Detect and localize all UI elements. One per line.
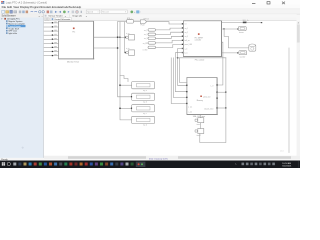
bus line B (120, 22, 132, 120)
wire T1 to P1 (134, 21, 141, 23)
chip U2 PIC control (183, 21, 221, 57)
svg-text:Program: Program (30, 5, 41, 9)
svg-text:sw_PB: sw_PB (143, 43, 148, 45)
wire return loop arrow (176, 57, 178, 59)
svg-text:PIC 16F877: PIC 16F877 (195, 37, 204, 39)
speaker LS1 (249, 45, 256, 52)
chip U1 Monitor Timer (59, 21, 94, 59)
port RC2 sounder (239, 51, 247, 55)
svg-text:File: File (2, 5, 7, 9)
wire right loop vertical (200, 58, 226, 143)
left panel header row (0, 14, 44, 17)
svg-text:⚙: ⚙ (22, 147, 24, 150)
canvas second toolbar row (44, 14, 297, 17)
wire U2 to U3 pin1 (178, 49, 187, 86)
wire U2 VDD rail (222, 22, 262, 24)
svg-text:PIC control: PIC control (195, 59, 205, 62)
svg-text:sw_3: sw_3 (185, 36, 189, 38)
wire U2 down right (217, 42, 223, 85)
wire P1 to U2 pin1 (147, 22, 184, 24)
status ready (0, 158, 44, 161)
wire left loop into U3 (180, 58, 187, 83)
svg-text:Solid Browser: Solid Browser (2, 15, 16, 18)
svg-text:Help: Help (75, 5, 81, 9)
register block R3 (132, 105, 155, 112)
svg-text:Image (4): Image (4) (72, 16, 82, 18)
wire U2 to U3 pin2 (175, 53, 187, 92)
wire bus stub block1 (120, 84, 132, 86)
wire S5 to U2 (156, 45, 184, 48)
svg-text:BTN_r: BTN_r (127, 18, 132, 20)
port RC1 buzzer (238, 27, 246, 31)
wire S4 to U2 (156, 40, 184, 43)
tray icons (242, 163, 245, 166)
svg-text:x 1.0: x 1.0 (280, 151, 284, 153)
svg-text:VDD_5v: VDD_5v (243, 20, 249, 22)
wire bus stub block3 (120, 107, 132, 109)
cortana (7, 162, 10, 165)
wire S1 to U2 (156, 28, 184, 30)
switch S5 (148, 46, 156, 49)
wire U3 lower right pin to loop (217, 107, 226, 109)
splitter buttons (44, 148, 46, 150)
panel divider (43, 14, 45, 158)
svg-text:Display: Display (20, 5, 30, 9)
svg-text:Memory: Memory (197, 99, 203, 102)
svg-text:▾: ▾ (39, 15, 40, 18)
page edge (288, 48, 290, 153)
register block R4 (132, 116, 155, 123)
schematic canvas (44, 21, 297, 156)
active window tile (136, 162, 146, 167)
wire down to U3 pin4 (171, 58, 187, 104)
wire U3 to B5 (199, 115, 201, 118)
U2 red logo (198, 33, 200, 35)
wire U2 to buzzer port (222, 28, 238, 30)
canvas tab row (44, 18, 296, 21)
left tree panel (0, 18, 44, 158)
U1 red logo (73, 28, 75, 30)
wire arrow into M1 (120, 36, 125, 38)
wire U1 out A (94, 36, 120, 38)
svg-text:▾: ▾ (86, 15, 87, 18)
wire down to U3 pin3 (173, 58, 187, 98)
svg-text:Speed: Speed (87, 12, 93, 14)
bus line A (118, 22, 132, 97)
app window background (0, 0, 300, 168)
junction dots (117, 37, 121, 110)
show desktop (297, 161, 299, 168)
svg-text:10:54 AM: 10:54 AM (282, 162, 291, 165)
bus line C (123, 22, 125, 53)
taskbar app icons (13, 163, 133, 166)
U1 pin name marks (54, 22, 57, 56)
svg-text:sw_2: sw_2 (144, 34, 148, 36)
tree child rows (6, 20, 8, 22)
port M1 (129, 35, 135, 40)
wire S3 to U2 (156, 36, 184, 38)
svg-text:yellow_led: yellow_led (203, 96, 210, 98)
horizontal scrollbar (44, 156, 300, 159)
port M2 (129, 50, 135, 55)
window close (282, 2, 285, 5)
window maximize (267, 2, 270, 4)
svg-text:Monitor Timer: Monitor Timer (67, 60, 80, 63)
svg-text:time: 0 (secs) 0.0%: time: 0 (secs) 0.0% (149, 157, 168, 160)
wire arrow into M2 (123, 52, 125, 54)
switch S4 (148, 42, 156, 45)
svg-text:Edit: Edit (7, 5, 12, 9)
VDD terminal (243, 22, 247, 24)
port P1 reset tag (140, 20, 146, 24)
svg-text:5/12/2021: 5/12/2021 (282, 166, 292, 168)
svg-text:buzzer: buzzer (239, 32, 244, 34)
windows taskbar (0, 161, 300, 169)
wire staircase to R1 (120, 76, 128, 82)
svg-text:Simulatn: Simulatn (40, 5, 51, 9)
register block R2 (132, 93, 155, 100)
port B5 timer1 (198, 118, 204, 123)
U3 red logo (200, 96, 202, 98)
toolbar (0, 9, 300, 14)
svg-text:panel_LED: panel_LED (185, 44, 193, 46)
title bar (0, 0, 300, 5)
svg-text:sounder: sounder (240, 57, 246, 59)
svg-text:light tickle: light tickle (8, 32, 18, 35)
svg-text:sw_1: sw_1 (144, 30, 148, 32)
switch S1 (148, 29, 156, 32)
U1 left pin terminals (52, 22, 53, 56)
wire U2 to sounder port (222, 52, 238, 54)
menu bar (0, 5, 300, 9)
svg-text:▾: ▾ (65, 15, 66, 18)
U2 left pin terminals (182, 23, 183, 53)
svg-text:Flash: Flash (141, 25, 145, 27)
switch S3 (148, 37, 156, 40)
switch S2 (148, 33, 156, 36)
wire S2 to U2 (156, 32, 184, 34)
U3 right pin terminals (216, 84, 217, 108)
svg-text:Sensor Tender: Sensor Tender (48, 15, 62, 18)
wire top rail (118, 21, 127, 23)
svg-text:▾: ▾ (125, 11, 126, 14)
wire B5 to B6 (199, 123, 201, 129)
svg-text:sw_3: sw_3 (144, 38, 148, 40)
port B6 timer2 (198, 129, 204, 134)
wire U3 right pin to loop (217, 91, 226, 93)
svg-text:Record: Record (102, 12, 108, 14)
svg-text:▾: ▾ (1, 18, 2, 21)
U3 left pin terminals (186, 85, 187, 105)
svg-text:sw_1: sw_1 (185, 28, 189, 30)
U1 left pin wires (44, 23, 59, 56)
window minimize (252, 2, 255, 5)
svg-text:sw_2: sw_2 (185, 32, 189, 34)
block T1 (127, 20, 134, 23)
U2 pin labels (184, 23, 193, 55)
start button (2, 162, 4, 164)
wire U1 out B (94, 47, 118, 49)
wire staircase to speaker (224, 29, 248, 48)
vertical scrollbar (297, 21, 300, 156)
app icon (1, 1, 2, 2)
register block R1 (132, 82, 155, 89)
svg-text:in_rx: in_rx (126, 33, 130, 35)
chip U3 Memory (187, 78, 217, 115)
